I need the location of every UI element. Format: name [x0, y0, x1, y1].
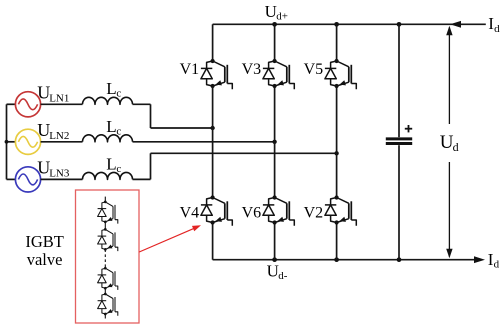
svg-text:d: d	[453, 140, 459, 154]
svg-text:L: L	[106, 79, 116, 98]
svg-text:LN2: LN2	[49, 130, 69, 142]
svg-text:LN3: LN3	[49, 168, 70, 180]
svg-text:V5: V5	[304, 61, 324, 78]
svg-text:V2: V2	[304, 205, 324, 222]
svg-text:IGBT: IGBT	[25, 232, 64, 251]
svg-text:d-: d-	[278, 270, 288, 282]
svg-text:V6: V6	[242, 205, 262, 222]
svg-text:c: c	[116, 88, 121, 100]
svg-text:c: c	[116, 125, 121, 137]
svg-text:U: U	[267, 262, 279, 281]
svg-text:V1: V1	[180, 61, 200, 78]
svg-text:d: d	[494, 23, 500, 35]
svg-text:V4: V4	[180, 205, 200, 222]
svg-text:L: L	[106, 154, 116, 173]
svg-text:c: c	[116, 163, 121, 175]
svg-text:d: d	[494, 259, 500, 271]
svg-text:LN1: LN1	[49, 93, 69, 105]
svg-text:d+: d+	[276, 11, 288, 23]
svg-text:U: U	[265, 2, 277, 21]
svg-text:L: L	[106, 117, 116, 136]
svg-text:valve: valve	[27, 250, 63, 269]
svg-text:V3: V3	[242, 61, 262, 78]
